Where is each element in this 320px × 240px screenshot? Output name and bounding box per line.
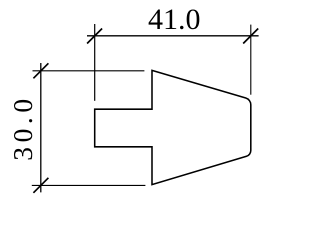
svg-text:41.0: 41.0 <box>148 3 201 36</box>
extension line top of 30.0 <box>33 70 145 72</box>
svg-text:30.0: 30.0 <box>7 94 38 161</box>
extension line left of 41.0 <box>94 24 96 101</box>
dimension line 30.0 (vertical, left) <box>40 63 42 192</box>
oblique tick at left end of 41.0 <box>87 29 102 44</box>
extension line bottom of 30.0 <box>32 184 146 186</box>
oblique tick at bottom end of 30.0 <box>33 178 48 193</box>
part outline (arrow-shaped body with left tab, rounded right corners) <box>95 70 251 184</box>
dimension line 41.0 (horizontal, top) <box>87 35 259 37</box>
oblique tick at right end of 41.0 <box>243 29 258 44</box>
oblique tick at top end of 30.0 <box>33 63 48 78</box>
extension line right of 41.0 <box>250 25 252 95</box>
